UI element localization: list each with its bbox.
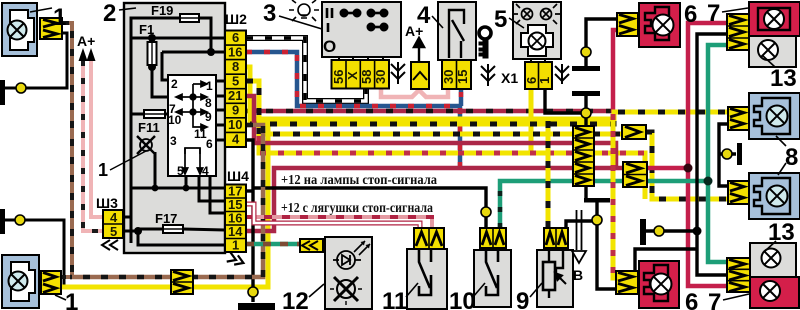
svg-text:3: 3 bbox=[170, 134, 177, 148]
wire stem to lamp6-bottom ground bbox=[597, 202, 616, 289]
node junction dot sw10 bbox=[481, 207, 491, 217]
svg-text:5: 5 bbox=[177, 164, 184, 178]
ground bar pair under X1 bbox=[572, 66, 600, 71]
svg-text:4: 4 bbox=[202, 164, 209, 178]
svg-text:11: 11 bbox=[382, 288, 407, 310]
wire maroon from Ш2-9 to lamp6-top riser bbox=[246, 109, 613, 114]
wire maroon stop feed +12 from Ш4-14 bbox=[246, 168, 646, 231]
svg-text:+12 с лягушки стоп-сигнала: +12 с лягушки стоп-сигнала bbox=[281, 200, 433, 215]
svg-text:O: O bbox=[323, 37, 336, 56]
lamp 13 bottom (gray) bbox=[750, 243, 796, 277]
indicator unit 12 bbox=[325, 237, 372, 309]
node junction dot bottom-left bbox=[15, 215, 25, 225]
svg-text:1: 1 bbox=[232, 238, 239, 253]
wire black branch to lamp6-bottom box bbox=[635, 249, 697, 272]
connector plug lamp6 bottom bbox=[616, 271, 638, 294]
wire pink A+ plain to Ш3-4 bbox=[91, 60, 103, 217]
svg-text:8: 8 bbox=[205, 96, 212, 110]
wire ground bar to black vertical bbox=[646, 229, 697, 232]
svg-text:10: 10 bbox=[228, 117, 242, 132]
connector cells sw11 bbox=[414, 228, 444, 249]
ground bar bottom-center bbox=[238, 303, 275, 310]
svg-text:12: 12 bbox=[282, 288, 309, 310]
wire yellow X1-6 riser bbox=[529, 90, 534, 153]
ground bar bottom-left bbox=[0, 209, 5, 234]
wire black from Ш2-4 down to ground bbox=[246, 140, 253, 302]
svg-text:Ш4: Ш4 bbox=[227, 168, 249, 184]
A+ arrow bbox=[414, 38, 424, 62]
wire yellow riser to bottom run bbox=[62, 119, 268, 287]
svg-text:X1: X1 bbox=[501, 70, 518, 86]
svg-text:21: 21 bbox=[228, 88, 242, 103]
X1 connector cells bbox=[525, 62, 552, 89]
wire lamp1-top to ground bbox=[4, 33, 67, 88]
box2 inner feed wiring bbox=[123, 18, 225, 245]
ground bar lamp8 (vertical) bbox=[737, 143, 742, 165]
svg-text:2: 2 bbox=[171, 77, 178, 91]
connector plug lamps 7/13 top (3 cells) bbox=[727, 14, 749, 50]
lamp 8 bottom (blue) bbox=[749, 173, 800, 219]
svg-text:A+: A+ bbox=[405, 23, 423, 39]
connector plug lamp1 bottom bbox=[41, 271, 61, 294]
wire black net top-right (7/13 ground) bbox=[697, 34, 727, 275]
connector cells sw10 bbox=[480, 228, 506, 248]
svg-text:7: 7 bbox=[708, 289, 721, 310]
lamp 6 top (red) bbox=[639, 3, 680, 47]
switch 10 (reverse light switch) bbox=[474, 250, 511, 307]
Ш4 connector strip bbox=[225, 185, 246, 253]
node dot crimson bbox=[684, 164, 693, 173]
fuse box 2 outline bbox=[124, 3, 225, 253]
switch3 position marks bbox=[327, 8, 332, 18]
wire yellow/black riser to sw9 bbox=[546, 121, 551, 228]
node junction dot top-left bbox=[16, 83, 26, 93]
wire yellow sidelight main bbox=[246, 67, 250, 124]
A+ connector cell bbox=[411, 62, 429, 89]
fuse F11 bbox=[144, 110, 165, 118]
svg-text:15: 15 bbox=[455, 70, 470, 84]
svg-text:B: B bbox=[573, 267, 583, 283]
svg-text:10: 10 bbox=[168, 113, 182, 127]
svg-text:+12 на лампы стоп-сигнала: +12 на лампы стоп-сигнала bbox=[281, 172, 437, 187]
Ш2 connector strip bbox=[225, 31, 246, 148]
svg-text:4: 4 bbox=[110, 210, 118, 225]
wire black X1 ground stem bbox=[584, 96, 587, 198]
svg-text:A+: A+ bbox=[77, 33, 95, 49]
node junction dot bottom ground bbox=[248, 287, 258, 297]
ground bar right (vertical) bbox=[640, 219, 646, 245]
fuse F19 bbox=[180, 14, 199, 22]
chevron symbol below Ш4 bbox=[227, 252, 246, 267]
wire black lamp6-top ground bbox=[586, 19, 617, 66]
svg-text:5: 5 bbox=[110, 224, 117, 239]
wire green reverse net bbox=[500, 181, 646, 228]
svg-text:30: 30 bbox=[373, 70, 388, 84]
svg-text:X: X bbox=[345, 71, 360, 80]
arrows A+ left bbox=[79, 48, 96, 61]
connector plug lamp8 bottom bbox=[728, 181, 749, 204]
svg-text:F11: F11 bbox=[138, 120, 160, 135]
connector plug lamp1 top bbox=[40, 18, 62, 39]
svg-text:8: 8 bbox=[232, 59, 239, 74]
switch3 connector cells 56 X 58 30 bbox=[332, 60, 390, 89]
svg-text:16: 16 bbox=[228, 45, 242, 60]
crossed lamp icon in box2 bbox=[137, 136, 155, 154]
lamp 13 top (gray) bbox=[749, 36, 796, 67]
svg-text:13: 13 bbox=[768, 219, 795, 246]
node dot bbox=[581, 108, 591, 118]
svg-text:F17: F17 bbox=[155, 211, 177, 226]
wire pink A+ (dashed) to Ш3-5 bbox=[83, 60, 103, 231]
wire yellow/red riser to lamp6-bottom bbox=[613, 114, 616, 278]
fuse F17 bbox=[163, 225, 183, 233]
wire yellow/red via stack c3 bbox=[259, 134, 645, 199]
svg-text:F19: F19 bbox=[151, 3, 173, 18]
lamp 1 top-left housing bbox=[2, 3, 37, 56]
wire white/maroon from Ш4-15 to sw11 bbox=[246, 204, 420, 228]
svg-text:6: 6 bbox=[685, 289, 698, 310]
lamp 7 top (red) bbox=[749, 2, 800, 36]
ignition switch 4 bbox=[438, 2, 476, 60]
wire yellow/black route B via inline connector to lamp8-bottom bbox=[246, 81, 622, 134]
wire blue stub ignition-15 bbox=[459, 89, 464, 106]
antenna-ground symbol right of sw3 cells bbox=[391, 62, 405, 84]
ground bar mid (T) bbox=[584, 198, 610, 203]
lamp unit 5 (license plate light) bbox=[513, 2, 561, 62]
lamp 7 bottom (red) bbox=[750, 277, 799, 308]
svg-text:1: 1 bbox=[65, 289, 78, 310]
svg-text:Ш2: Ш2 bbox=[225, 11, 247, 27]
wire crimson riser lamp6-top bbox=[613, 30, 617, 113]
inline connector stack (5 cells) bbox=[573, 126, 594, 186]
wire lamp1-bottom ground run bbox=[4, 220, 64, 288]
antenna-ground symbol right of ignition cells bbox=[481, 64, 495, 86]
svg-text:10: 10 bbox=[449, 288, 476, 310]
svg-text:2: 2 bbox=[103, 0, 116, 27]
wire green/brown from Ш4-1 to connector12 bbox=[246, 242, 300, 247]
lamp 8 top (blue) bbox=[749, 93, 800, 139]
wire black stub Ш4-17 bbox=[246, 189, 253, 192]
svg-text:9: 9 bbox=[516, 288, 529, 310]
svg-text:6: 6 bbox=[684, 1, 697, 28]
svg-text:6: 6 bbox=[206, 137, 213, 151]
B arrow (outline, down) bbox=[572, 210, 586, 263]
svg-text:1: 1 bbox=[98, 160, 108, 180]
svg-text:Ш3: Ш3 bbox=[96, 195, 118, 211]
connector plug lamps 13/7 bottom (3 cells) bbox=[727, 258, 750, 292]
node dot bbox=[581, 47, 591, 57]
svg-text:1: 1 bbox=[206, 79, 213, 93]
wire white/black from Ш2-6 to switch3 pin58 bbox=[246, 38, 366, 101]
ignition connector cells 30 15 bbox=[442, 60, 471, 89]
node dot on stem bbox=[592, 215, 602, 225]
node junction dot lamp8 ground bbox=[722, 149, 732, 159]
wire yellow/black route A to lamp8-top bbox=[250, 112, 728, 124]
wire pink feed A+ to switches 3 and 4 bbox=[381, 88, 448, 97]
svg-text:7: 7 bbox=[707, 0, 720, 27]
svg-text:5: 5 bbox=[232, 74, 239, 89]
lamp 6 bottom (red) bbox=[639, 261, 679, 308]
wire red/white dash from Ш4-16 to sw11 bbox=[246, 217, 432, 228]
svg-text:58: 58 bbox=[359, 70, 374, 84]
wire black stop switch feed bbox=[253, 188, 486, 228]
connector plug lamp6 top bbox=[617, 13, 638, 36]
wire brown from Ш2-10 to sidelight bottom run bbox=[70, 125, 263, 277]
svg-text:30: 30 bbox=[441, 70, 456, 84]
lamp 1 bottom-left housing bbox=[2, 255, 39, 308]
rheostat 9 (instrument light) bbox=[537, 250, 573, 307]
antenna-ground symbol right of X1 bbox=[555, 64, 569, 84]
Ш3 connector bbox=[103, 210, 123, 238]
wire blue/red from Ш2-16 to ignition 15 bbox=[246, 52, 460, 166]
svg-text:F1: F1 bbox=[139, 22, 154, 37]
switch 11 (brake light switch) bbox=[407, 249, 447, 309]
ignition key icon bbox=[479, 27, 491, 58]
svg-text:1: 1 bbox=[537, 77, 552, 84]
svg-text:9: 9 bbox=[205, 110, 212, 124]
fuse F1 bbox=[148, 42, 157, 65]
inline connector on sidelight wires (2 cells) bbox=[171, 270, 193, 294]
wire lamp8 ground bracket bbox=[719, 124, 728, 186]
svg-text:9: 9 bbox=[232, 103, 239, 118]
inline connector crimson/green (2 cells) bbox=[623, 162, 647, 187]
chevron symbol below Ш3 bbox=[102, 240, 118, 250]
relay unit in box2 bbox=[168, 75, 216, 176]
node dots box2 bbox=[148, 34, 156, 42]
ground bar top-left bbox=[0, 80, 5, 105]
svg-text:5: 5 bbox=[494, 6, 507, 33]
node junction dot bbox=[654, 226, 664, 236]
svg-text:56: 56 bbox=[331, 70, 346, 84]
connector cells sw9 bbox=[544, 228, 568, 248]
svg-text:3: 3 bbox=[263, 0, 276, 27]
svg-text:6: 6 bbox=[232, 30, 239, 45]
svg-text:8: 8 bbox=[785, 144, 798, 171]
node dot black bbox=[693, 227, 702, 236]
switch 3 (light switch) bbox=[322, 2, 401, 60]
node dot green bbox=[704, 177, 713, 186]
svg-text:13: 13 bbox=[770, 65, 797, 92]
svg-text:1: 1 bbox=[53, 4, 66, 31]
lamp icon near 3 bbox=[289, 0, 319, 21]
wire sw9 right cell to ground stem bbox=[566, 221, 597, 228]
inline connector on yellow/black wire bbox=[622, 125, 646, 139]
connector plug of unit 12 bbox=[300, 239, 325, 252]
svg-text:4: 4 bbox=[232, 132, 240, 147]
wire maroon from Ш2-21 via stack c2 bbox=[246, 96, 616, 166]
wire brown-black sidelight (lamp1 top to lamp1 bottom) bbox=[61, 23, 72, 277]
connector plug lamp8 top bbox=[728, 107, 749, 130]
